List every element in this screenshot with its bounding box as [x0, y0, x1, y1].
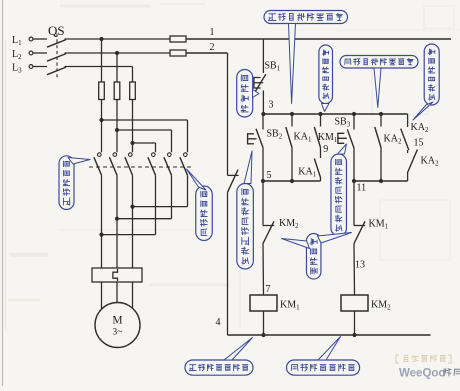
mechanical linkage (dashed): [89, 166, 191, 168]
node: rail3-SB2: [261, 112, 265, 116]
start button SB3 (reverse): [335, 114, 355, 148]
wire crossover L2 to KM2 middle pole: [117, 130, 172, 152]
wire V to KM1 bank: [116, 100, 118, 153]
wires FR to motor: [102, 282, 133, 310]
svg-text:M: M: [112, 315, 122, 327]
node: rail3-SB3: [352, 112, 356, 116]
node 5 rail: [263, 170, 321, 181]
stop button SB1: [254, 61, 281, 93]
relay contact KA2 (auto rev): [375, 114, 402, 148]
wire FR contact to bottom rail: [227, 192, 229, 335]
node: U merge: [99, 233, 103, 237]
fuse FU2 (line 2): [170, 50, 186, 56]
svg-text:13: 13: [355, 260, 365, 271]
callout: forward auto control contact: [264, 11, 348, 104]
svg-text:WeeQoo: WeeQoo: [399, 368, 445, 380]
node: rail5-left: [261, 179, 265, 183]
wire line 2 drop (node 4): [216, 53, 228, 328]
node: L1 tap: [99, 37, 103, 41]
wire control feed from line 1: [262, 39, 264, 73]
wire line 2: [186, 42, 228, 53]
wire KM2 middle pole to V: [117, 175, 172, 219]
wire line 1: [186, 27, 451, 39]
node: L2 tap: [115, 51, 119, 55]
thermal relay FR contact (NC): [228, 170, 239, 193]
node: rail3-KA1: [290, 112, 294, 116]
motor M 3~: [95, 303, 140, 348]
wire phase U drop: [101, 39, 103, 82]
wire node5 down: [262, 181, 264, 226]
node: V crossover tap: [115, 128, 119, 132]
node: bottom-KM1: [261, 333, 265, 337]
svg-text:2: 2: [210, 42, 215, 53]
wire L1 row to fuse: [65, 38, 171, 40]
callout: manual self-lock contact (middle): [319, 45, 333, 112]
node: rail11-KA2: [379, 179, 383, 183]
interlock contact KM2 (NC): [263, 218, 299, 244]
wire SB2 to node5: [262, 148, 264, 182]
wire KA1 to node5: [291, 148, 293, 182]
coil KM2: [341, 295, 391, 312]
contactor aux contact KM1 (self-lock): [314, 114, 338, 148]
watermark: [396, 355, 460, 380]
fuse FU (phase V): [114, 82, 120, 100]
contactor KM2 main contacts (reverse): [148, 153, 188, 175]
fuse FU (phase U): [99, 82, 105, 100]
callout: reverse contactor coil: [287, 337, 360, 376]
start button SB2 (forward): [248, 114, 283, 148]
wire to node11 rail: [407, 173, 409, 182]
wire phase W drop: [132, 67, 134, 83]
node: rail3-KA2: [379, 112, 383, 116]
wire L3 row: [65, 66, 133, 68]
callout: manual self-lock contact (right): [413, 44, 439, 120]
terminal L3: [12, 63, 33, 75]
wire L2 row to fuse: [65, 52, 171, 54]
node: W merge: [130, 205, 134, 209]
wire KM2 left pole to U: [102, 175, 156, 234]
wire node 13: [354, 244, 365, 296]
node: W crossover tap: [130, 141, 134, 145]
wire crossover L3 to KM2 left pole: [133, 143, 156, 152]
node: U crossover tap: [99, 118, 103, 122]
contactor KM1 main contacts (forward): [94, 153, 133, 175]
node 11 rail: [354, 181, 408, 194]
callout: manual reverse start button: [331, 144, 347, 236]
fuse FU1 (line 1): [170, 36, 186, 42]
svg-text:15: 15: [414, 137, 424, 148]
callout: forward contactor coil: [185, 338, 253, 376]
svg-text:7: 7: [266, 284, 271, 295]
relay contact KA1 (series, below node 9): [298, 159, 320, 179]
svg-text:4: 4: [216, 317, 221, 328]
callout: stop button: [237, 70, 259, 118]
wire KM1 poles down: [102, 175, 133, 268]
thermal overload relay FR: [92, 268, 142, 282]
wire KM2 right pole to W: [133, 175, 188, 206]
svg-text:QS: QS: [48, 23, 65, 38]
relay contact KA1 (auto fwd): [286, 114, 312, 148]
wire coil KM2 to bottom rail: [354, 311, 356, 335]
fuse FU (phase W): [130, 82, 136, 100]
svg-text:1: 1: [210, 27, 215, 38]
bottom rail: [228, 334, 431, 336]
svg-text:5: 5: [267, 170, 272, 181]
wire rail3 right end down: [407, 114, 409, 127]
wire crossover L1 to KM2 right pole: [102, 120, 188, 152]
wire phase V drop: [116, 53, 118, 82]
wire coil KM1 to bottom rail: [263, 311, 265, 335]
wire node 7: [263, 244, 271, 296]
terminal L2: [12, 49, 33, 61]
callout: reverse auto control contact: [340, 56, 418, 108]
wire W to KM1 bank: [132, 100, 134, 153]
wire U to KM1 bank: [101, 100, 103, 153]
interlock contact KM1 (NC): [354, 219, 389, 244]
wire KA2 to node11: [380, 148, 382, 182]
svg-text:3: 3: [269, 100, 274, 111]
wire SB1 to node 3: [263, 91, 273, 115]
svg-text:3~: 3~: [113, 328, 123, 338]
node: rail5-KA1: [290, 179, 294, 183]
wire node11 down: [353, 181, 355, 226]
node: rail3-KM1: [318, 112, 322, 116]
node: bottom-KM2: [352, 333, 356, 337]
callout: forward contactor: [59, 156, 90, 210]
coil KM1: [250, 295, 300, 312]
callout: interlock contacts: [282, 233, 352, 280]
node 15: [408, 137, 424, 153]
node: rail11-left: [352, 179, 356, 183]
svg-text:9: 9: [323, 144, 328, 155]
node 3 rail: [263, 113, 407, 115]
terminal L1: [12, 35, 33, 47]
contactor aux contact KA2 (self-lock, upper): [401, 122, 429, 150]
node: V merge: [115, 217, 119, 221]
svg-text:11: 11: [357, 183, 367, 194]
wire KA1b to node5 rail: [320, 178, 322, 182]
wire SB3 to node11: [353, 148, 355, 181]
relay contact KA2 (lower): [408, 150, 439, 173]
node 9: [321, 144, 329, 158]
disconnect switch QS: [33, 23, 66, 79]
callout: reverse contactor: [187, 169, 213, 241]
callout: manual forward start button: [237, 151, 254, 269]
